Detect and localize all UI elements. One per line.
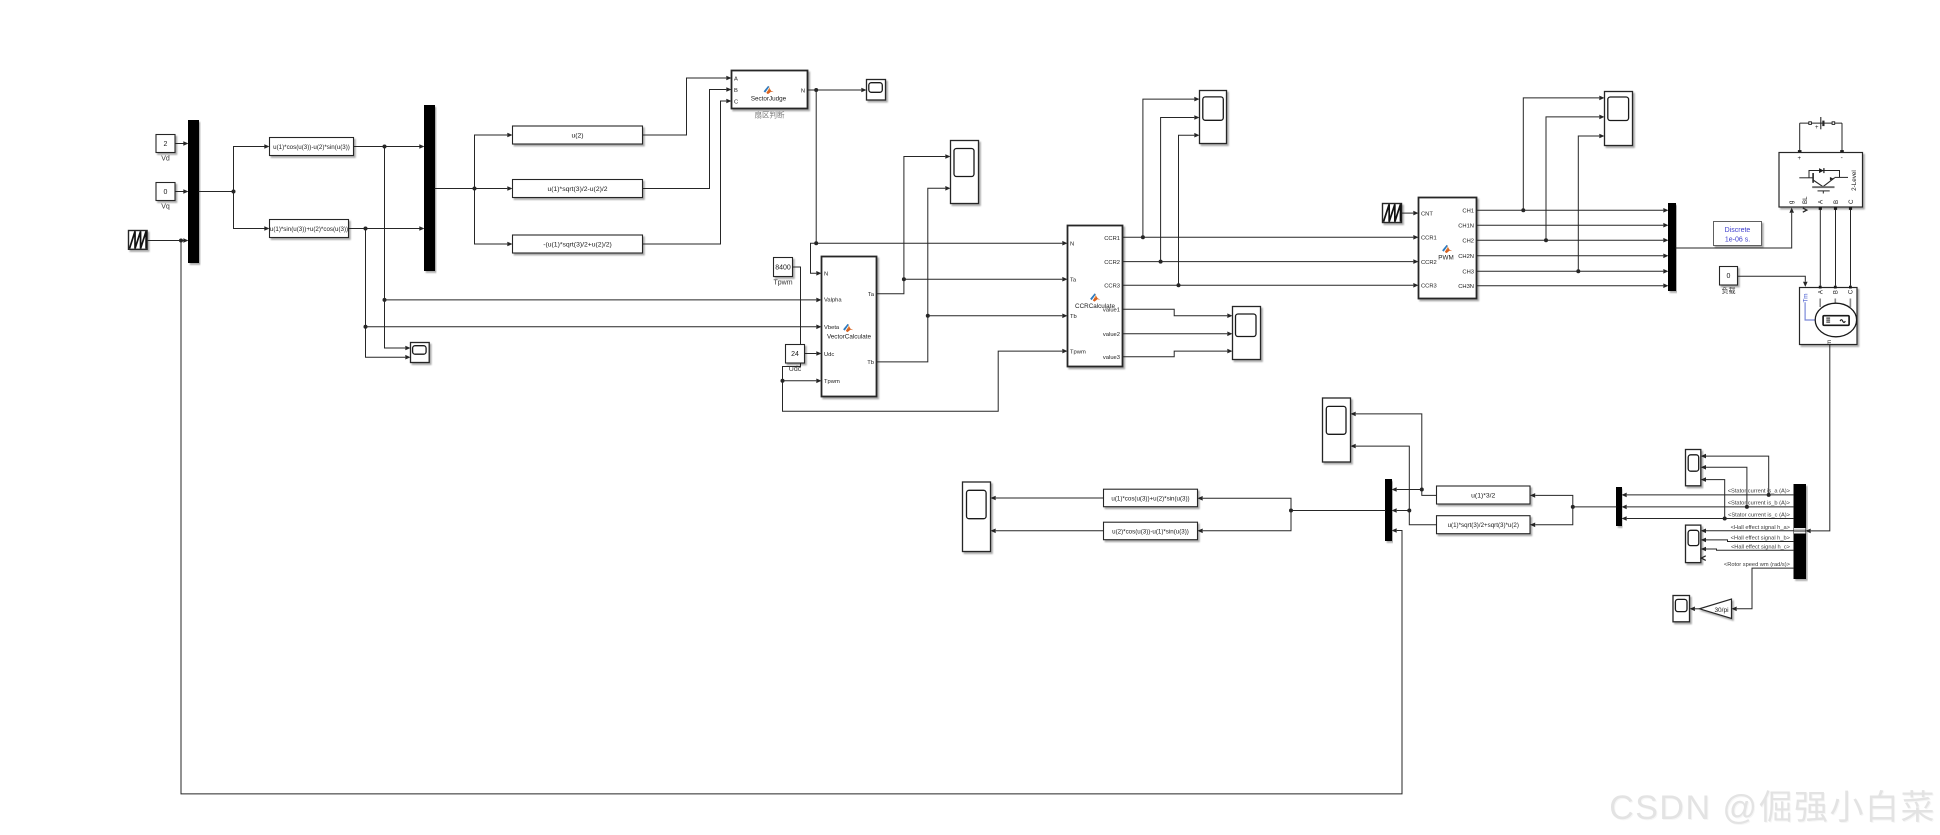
svg-text:CH3N: CH3N — [1458, 284, 1474, 290]
wire Ta to CCR Ta — [877, 277, 1068, 294]
svg-text:Vq: Vq — [161, 204, 170, 211]
svg-text:A: A — [1818, 290, 1824, 294]
wire is_b to Mux4 — [1622, 505, 1795, 510]
wire to scope alphabeta in1 — [1351, 412, 1422, 490]
svg-text:Tb: Tb — [867, 360, 874, 366]
svg-text:扇区判断: 扇区判断 — [755, 110, 785, 120]
svg-text:CH1N: CH1N — [1458, 224, 1474, 230]
svg-text:B: B — [734, 88, 738, 94]
signal label <Rotor speed wm (rad/s)> — [1724, 562, 1791, 568]
wire Fcn 3/2 to Mux5 in1 — [1392, 487, 1437, 495]
wire is_c to scope currents in3 — [1701, 477, 1725, 518]
wire alpha to scope VaVb in1 — [385, 300, 411, 350]
svg-text:Udc: Udc — [824, 352, 834, 358]
svg-text:负载: 负载 — [1722, 286, 1736, 295]
wire N down to CCR row — [814, 90, 1067, 246]
svg-text:CCR3: CCR3 — [1421, 284, 1437, 290]
svg-text:N: N — [1070, 242, 1074, 248]
wire rotor speed to gain — [1732, 568, 1795, 611]
wire branch to Fcn dq lower — [234, 192, 270, 231]
scope alphabeta — [1323, 398, 1351, 462]
wire N stub to VectorCalculate — [811, 243, 822, 275]
svg-text:+: + — [1815, 125, 1819, 131]
wire Fcn beta to Mux2 — [349, 226, 425, 231]
wire branch to Fcn mid — [475, 186, 513, 191]
svg-text:B: B — [1834, 290, 1840, 294]
powergui Discrete — [1714, 222, 1762, 246]
wire Ta to scope TaTb in1 — [904, 154, 951, 279]
wire CH3 to Mux3 — [1477, 238, 1669, 243]
wire bridge B to motor B — [1835, 210, 1837, 286]
svg-text:0: 0 — [164, 189, 168, 196]
signal label <Stator current is_a (A)> — [1728, 489, 1791, 495]
svg-text:CCR1: CCR1 — [1104, 236, 1120, 242]
wire branch to Fcn u(2) — [475, 133, 513, 189]
wire Tpwm to CCRCalculate Tpwm — [783, 349, 1068, 412]
svg-text:BL: BL — [1802, 196, 1809, 204]
svg-text:C: C — [1848, 199, 1855, 204]
wire Mux1 output to branch node — [199, 190, 236, 194]
wire branch to Fcn dq upper — [234, 144, 270, 191]
label 扇区判断 — [755, 110, 785, 120]
wire CCR1 to scope CCR in1 — [1143, 97, 1200, 238]
svg-text:30/pi: 30/pi — [1714, 607, 1728, 614]
wire battery left to bridge + — [1799, 123, 1801, 151]
wire CNT — [1402, 211, 1419, 216]
wire Vq to Mux1 — [175, 189, 189, 194]
wire CH1 to Mux3 — [1477, 208, 1669, 213]
wire battery right to bridge - — [1841, 123, 1843, 151]
wire SectorJudge N to scope — [808, 88, 867, 93]
wire CCR2 to scope CCR in2 — [1161, 115, 1200, 261]
fcn block u(2) — [513, 126, 643, 144]
svg-text:<Hall effect signal h_c>: <Hall effect signal h_c> — [1731, 544, 1791, 550]
constant Vq — [156, 183, 175, 211]
scope SectorN — [867, 80, 886, 101]
bridge port square B — [1834, 207, 1837, 210]
wire CCR3 to scope CCR in3 — [1179, 133, 1200, 285]
universal bridge 2-Level — [1779, 153, 1863, 208]
svg-text:u(2): u(2) — [571, 132, 583, 139]
svg-text:u(1)*3/2: u(1)*3/2 — [1471, 492, 1495, 499]
wire value3 to scope values in3 — [1123, 349, 1233, 357]
matlab function block VectorCalculate — [822, 257, 877, 397]
terminal square + — [1798, 150, 1802, 154]
svg-text:u(1)*sqrt(3)/2+sqrt(3)*u(2): u(1)*sqrt(3)/2+sqrt(3)*u(2) — [1448, 522, 1519, 529]
wire is_a to Mux4 — [1622, 493, 1795, 498]
wire h_b to scope hall in2 — [1701, 538, 1794, 543]
constant 0 load — [1720, 267, 1738, 296]
wire invpark1 to scope final in1 — [991, 496, 1104, 501]
wire invpark2 to scope final in2 — [991, 529, 1104, 534]
scope hall unconnected port chevron — [1701, 556, 1706, 561]
bridge port square C — [1849, 207, 1852, 210]
wire 8400 to VectorCalculate Tpwm — [781, 267, 822, 383]
wire Fcn alpha to Mux2 — [354, 144, 425, 149]
mux Mux3 — [1669, 204, 1676, 291]
wire Vd to Mux1 — [175, 141, 189, 146]
svg-text:A: A — [734, 77, 738, 83]
wire is_a to scope currents in1 — [1701, 454, 1769, 495]
terminal square - — [1840, 150, 1844, 154]
svg-text:N: N — [824, 272, 828, 278]
svg-text:Tm: Tm — [1802, 293, 1809, 302]
wire Fcn sqrt to Mux5 in2 — [1392, 508, 1437, 525]
wire branch to Fcn invpark1 — [1198, 496, 1292, 511]
wire CCR1 to PWM — [1123, 235, 1419, 240]
svg-text:u(2)*cos(u(3))-u(1)*sin(u(3)): u(2)*cos(u(3))-u(1)*sin(u(3)) — [1112, 528, 1189, 535]
junction CH2 to scope — [1544, 115, 1605, 243]
svg-text:C: C — [1849, 289, 1855, 294]
svg-text:u(1)*sin(u(3))+u(2)*cos(u(3)): u(1)*sin(u(3))+u(2)*cos(u(3)) — [270, 226, 348, 233]
wire branch to Fcn sqrt — [1530, 507, 1573, 527]
fcn block u(1)*sqrt(3)/2+sqrt(3)*u(2) — [1437, 516, 1531, 534]
svg-text:CCR1: CCR1 — [1421, 236, 1437, 242]
signal label <Hall effect signal h_b> — [1731, 535, 1791, 541]
fcn block u(1)*3/2 — [1437, 486, 1531, 504]
scope rpm — [1673, 596, 1690, 622]
wire is_c to Mux4 — [1622, 516, 1795, 521]
fcn block u(1)*cos(u(3))-u(2)*sin(u(3)) — [270, 138, 354, 156]
svg-text:g: g — [1788, 200, 1795, 204]
svg-text:<Rotor speed wm (rad/s)>: <Rotor speed wm (rad/s)> — [1724, 562, 1791, 568]
DC voltage source battery — [1800, 117, 1842, 131]
wire load to Tm — [1738, 276, 1808, 287]
fcn block -(u(1)*sqrt(3)/2+u(2)/2) — [513, 235, 643, 253]
signal label <Stator current is_b (A)> — [1728, 501, 1791, 507]
svg-text:Ta: Ta — [1070, 278, 1077, 284]
svg-text:8400: 8400 — [775, 264, 791, 271]
bridge port square A — [1819, 207, 1822, 210]
scope CCR — [1200, 91, 1227, 144]
svg-text:N: N — [801, 88, 805, 94]
wire is_b to scope currents in2 — [1701, 465, 1747, 507]
wire Mux4 output to branch — [1571, 505, 1617, 509]
wire h_a to scope hall in1 — [1701, 529, 1794, 534]
svg-text:Vbeta: Vbeta — [824, 325, 840, 331]
svg-text:B: B — [1833, 200, 1840, 204]
wire mid to SectorJudge B — [643, 87, 732, 188]
signal label <Hall effect signal h_a> — [1731, 525, 1791, 531]
wire to scope alphabeta in2 — [1351, 444, 1410, 511]
signal label <Hall effect signal h_c> — [1731, 544, 1791, 550]
svg-text:Tpwm: Tpwm — [1070, 349, 1086, 355]
svg-text:CNT: CNT — [1421, 211, 1433, 217]
fcn block u(1)*sqrt(3)/2-u(2)/2 — [513, 180, 643, 198]
matlab function block PWM — [1419, 198, 1477, 299]
scope CH — [1605, 92, 1633, 146]
wire beta down to Vbeta — [364, 229, 822, 330]
svg-text:<Hall effect signal h_a>: <Hall effect signal h_a> — [1731, 525, 1791, 531]
svg-text:CH1: CH1 — [1462, 209, 1474, 215]
svg-text:1e-06 s.: 1e-06 s. — [1725, 237, 1750, 244]
mux Mux1 — [189, 121, 199, 263]
scope values — [1233, 307, 1261, 360]
svg-text:<Hall effect signal h_b>: <Hall effect signal h_b> — [1731, 535, 1791, 541]
junction CH1 to scope — [1521, 96, 1604, 213]
wire branch to Fcn 3/2 — [1530, 493, 1573, 507]
wire theta feedback loop — [181, 241, 1402, 794]
scope VaVb — [411, 343, 430, 363]
bus selector — [1794, 485, 1806, 579]
svg-text:-(u(1)*sqrt(3)/2+u(2)/2): -(u(1)*sqrt(3)/2+u(2)/2) — [543, 241, 612, 248]
constant 24 Udc — [786, 345, 805, 374]
wire value2 to scope values in2 — [1123, 332, 1233, 337]
bridge BL unconnected port chevron — [1803, 208, 1807, 212]
svg-text:Tpwm: Tpwm — [773, 280, 792, 287]
constant Vd — [156, 135, 175, 163]
scope final — [963, 482, 991, 552]
mux Mux4 — [1617, 488, 1622, 526]
fcn block u(1)*sin(u(3))+u(2)*cos(u(3)) — [270, 220, 349, 238]
wire Mux3 to bridge g — [1676, 208, 1795, 249]
svg-text:VectorCalculate: VectorCalculate — [827, 334, 872, 341]
svg-text:CCR2: CCR2 — [1421, 260, 1437, 266]
svg-text:CCRCalculate: CCRCalculate — [1075, 303, 1115, 310]
svg-text:u(1)*cos(u(3))-u(2)*sin(u(3)): u(1)*cos(u(3))-u(2)*sin(u(3)) — [273, 144, 350, 151]
svg-text:-: - — [1841, 155, 1843, 162]
mux Mux2 — [425, 106, 435, 271]
fcn block u(2)*cos(u(3))-u(1)*sin(u(3)) — [1104, 522, 1198, 540]
svg-text:m: m — [1827, 340, 1833, 345]
repeating sequence theta — [129, 231, 148, 250]
svg-text:Ta: Ta — [868, 292, 875, 298]
svg-text:Vd: Vd — [161, 156, 170, 163]
svg-text:<Stator current is_a (A)>: <Stator current is_a (A)> — [1728, 489, 1791, 495]
wire CH2 to Mux3 — [1477, 223, 1669, 228]
svg-text:24: 24 — [791, 351, 799, 358]
matlab function block CCRCalculate — [1068, 226, 1123, 367]
wire Mux5 output to branch — [1289, 509, 1386, 513]
svg-text:Valpha: Valpha — [824, 298, 842, 304]
wire alpha down to Valpha — [383, 147, 822, 303]
svg-text:value2: value2 — [1103, 332, 1120, 338]
signal label <Stator current is_c (A)> — [1728, 513, 1791, 519]
svg-text:value3: value3 — [1103, 355, 1120, 361]
wire Tb to CCR Tb — [877, 314, 1068, 362]
junction CH3 to scope — [1576, 134, 1604, 274]
wire gain to scope rpm — [1690, 607, 1700, 612]
scope currents — [1686, 450, 1701, 486]
svg-text:SectorJudge: SectorJudge — [751, 96, 787, 103]
scope hall — [1686, 525, 1701, 563]
svg-text:2: 2 — [164, 141, 168, 148]
wire u(2) to SectorJudge A — [643, 76, 732, 135]
svg-text:+: + — [1798, 156, 1802, 162]
scope TaTb — [951, 141, 979, 204]
svg-text:0: 0 — [1727, 273, 1731, 280]
fcn block u(1)*cos(u(3))+u(2)*sin(u(3)) — [1104, 489, 1198, 507]
svg-text:Discrete: Discrete — [1725, 227, 1751, 234]
mux Mux5 — [1386, 480, 1392, 541]
wire CH6 to Mux3 — [1477, 283, 1669, 288]
svg-text:Udc: Udc — [789, 366, 802, 373]
wire branch to Fcn low — [475, 189, 513, 247]
wire branch to Fcn invpark2 — [1198, 511, 1292, 534]
svg-text:2-Level: 2-Level — [1851, 170, 1858, 191]
gain 30/pi — [1700, 599, 1732, 619]
svg-text:CCR3: CCR3 — [1104, 284, 1120, 290]
wire CH5 to Mux3 — [1477, 269, 1669, 274]
svg-text:Tb: Tb — [1070, 314, 1077, 320]
wire CCR3 to PWM — [1123, 283, 1419, 288]
repeating sequence CNT — [1383, 204, 1402, 223]
svg-text:u(1)*sqrt(3)/2-u(2)/2: u(1)*sqrt(3)/2-u(2)/2 — [547, 186, 607, 193]
svg-text:CH2N: CH2N — [1458, 254, 1474, 260]
svg-text:<Stator current is_c (A)>: <Stator current is_c (A)> — [1728, 513, 1791, 519]
wire low to SectorJudge C — [643, 99, 732, 244]
wire motor m output down — [1806, 345, 1830, 534]
svg-text:<Stator current is_b (A)>: <Stator current is_b (A)> — [1728, 501, 1791, 507]
wire beta to scope VaVb in2 — [366, 327, 411, 360]
wire bridge C to motor C — [1850, 210, 1852, 286]
svg-text:u(1)*cos(u(3))+u(2)*sin(u(3)): u(1)*cos(u(3))+u(2)*sin(u(3)) — [1111, 495, 1189, 502]
wire Mux2 output branch node — [435, 187, 477, 191]
wire theta to Mux1 with feedback junction — [148, 238, 189, 243]
svg-text:C: C — [734, 100, 738, 106]
constant 8400 Tpwm — [773, 258, 792, 287]
svg-text:PWM: PWM — [1438, 255, 1453, 262]
svg-text:CCR2: CCR2 — [1104, 260, 1120, 266]
matlab function block SectorJudge — [732, 71, 808, 109]
wire h_c to scope hall in3 — [1701, 547, 1794, 552]
wire CCR2 to PWM — [1123, 259, 1419, 264]
wire 24 to Udc — [805, 351, 822, 356]
wire Tb to scope TaTb in2 — [928, 186, 951, 316]
svg-text:CH2: CH2 — [1462, 239, 1474, 245]
wire value1 to scope values in1 — [1123, 309, 1233, 318]
wire CH4 to Mux3 — [1477, 254, 1669, 259]
wire bridge A to motor A — [1819, 210, 1821, 286]
svg-text:Tpwm: Tpwm — [824, 379, 840, 385]
svg-text:CH3: CH3 — [1462, 270, 1474, 276]
PMSM motor block — [1800, 286, 1858, 345]
